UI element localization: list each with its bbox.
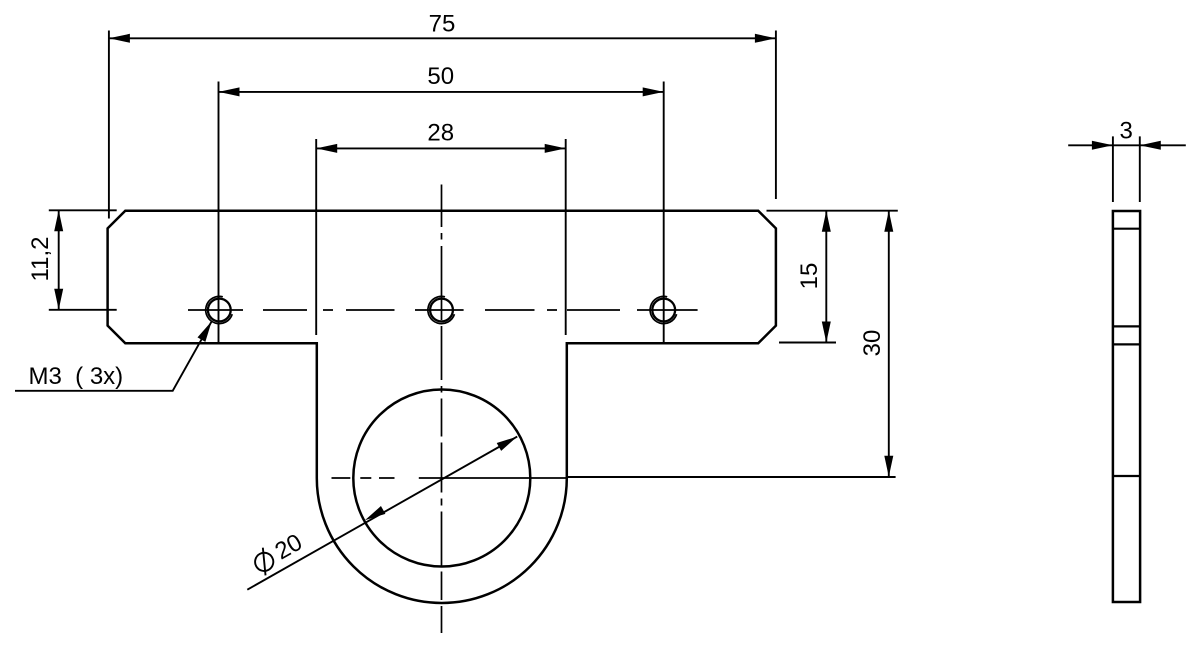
dim 75: arrows — [109, 34, 776, 43]
dim 50: line — [219, 91, 664, 93]
dim 15: arrows — [822, 211, 831, 343]
svg-text:3: 3 — [1120, 118, 1133, 145]
dim 28: line — [316, 147, 566, 149]
dim D20: leader line — [247, 437, 517, 590]
hole D20 — [353, 390, 530, 567]
dim D20: arrows — [365, 437, 517, 521]
dim 3: line — [1068, 144, 1186, 146]
dim 30: extension line top — [767, 210, 898, 212]
hole M3 left: thread arc — [206, 296, 233, 323]
svg-text:50: 50 — [427, 63, 454, 90]
dim 50: extension lines — [219, 82, 664, 344]
dim 15: line — [825, 211, 827, 343]
dim 11,2: arrows — [54, 210, 63, 309]
dim 28: arrows — [316, 144, 566, 153]
svg-text:M3 ( 3x): M3 ( 3x) — [29, 363, 124, 390]
side view outline — [1113, 211, 1140, 602]
dim 75: line — [109, 37, 776, 39]
svg-text:11,2: 11,2 — [27, 237, 54, 282]
leader M3: arrow — [198, 321, 212, 342]
dim 30: arrows — [884, 211, 893, 477]
text D20 (diameter symbol drawn + digits) — [249, 529, 307, 578]
hole M3 right: core — [652, 299, 675, 322]
dim 30: line — [888, 211, 890, 477]
dim 15: extension line bottom — [779, 342, 836, 344]
dim 3: arrows (outside, pointing in) — [1092, 141, 1161, 150]
hole M3 middle: thread arc — [428, 296, 455, 323]
dim 11,2: extension lines — [49, 210, 117, 309]
dim 3: extension lines — [1113, 136, 1140, 202]
dim 50: arrows — [219, 87, 664, 96]
leader M3: underline and diagonal — [15, 321, 212, 391]
svg-text:15: 15 — [796, 263, 823, 290]
centerline horizontal through D20 hole — [332, 477, 567, 479]
dim 30: extension line bottom — [567, 476, 896, 478]
dim 75: extension lines — [109, 31, 776, 219]
hole M3 right: thread arc — [650, 296, 677, 323]
hole M3 middle: core — [430, 299, 453, 322]
dim 28: extension lines — [316, 139, 566, 335]
svg-text:30: 30 — [859, 330, 886, 357]
hole M3 left: core — [208, 299, 231, 322]
side view edge lines — [1113, 229, 1140, 476]
centerline vertical through middle — [441, 185, 443, 634]
svg-text:28: 28 — [427, 120, 454, 147]
centerline horizontal through M3 holes — [188, 309, 698, 311]
svg-text:75: 75 — [429, 11, 456, 38]
dim 11,2: line — [58, 210, 60, 309]
plate outline (front view) — [108, 211, 776, 603]
